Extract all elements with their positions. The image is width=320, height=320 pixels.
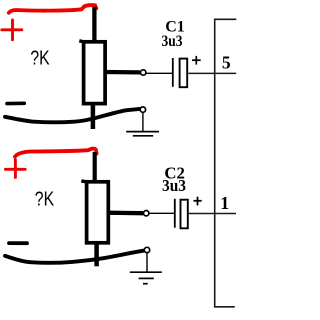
red supply wire (bottom channel): [15, 149, 97, 157]
terminal node: R1 wiper solder tab: [141, 70, 146, 75]
plus terminal label (bottom channel): [5, 160, 25, 178]
wire: ground tab to ground symbol (top): [142, 113, 144, 132]
wire: wiper arm of R2 (thick): [107, 211, 143, 216]
wire: wiper arm of R1 (thick): [104, 70, 140, 75]
wire: bottom stub of R2: [94, 243, 99, 266]
terminal node: R2 wiper solder tab: [144, 211, 149, 216]
ground symbol (bottom channel): [130, 272, 162, 284]
capacitor C2 (polarized: bar plate + box plate): [175, 199, 188, 229]
wire: wiper tab to capacitor C1: [146, 72, 172, 74]
plus terminal label (top channel): [2, 20, 22, 40]
terminal node: ground tab (top channel): [140, 107, 145, 112]
svg-text:5: 5: [222, 53, 231, 73]
minus terminal label (top channel): [7, 102, 24, 106]
svg-text:?K: ?K: [30, 47, 50, 69]
plus polarity mark of C2: [194, 197, 202, 206]
wire: ground tab to ground symbol (bottom): [146, 253, 148, 272]
svg-text:1: 1: [220, 193, 229, 213]
wire: top lead from red wire to potentiometer body: [92, 7, 96, 42]
potentiometer R2 body (bottom): [81, 181, 108, 243]
wire: wiper tab to capacitor C2: [149, 212, 174, 214]
svg-text:?K: ?K: [35, 188, 55, 210]
plus polarity mark of C1: [192, 56, 201, 65]
svg-text:3u3: 3u3: [162, 176, 186, 195]
terminal node: ground tab (bottom channel): [144, 247, 149, 252]
svg-text:3u3: 3u3: [162, 33, 183, 50]
minus terminal label (bottom channel): [9, 241, 27, 245]
wire: C1 to IC pin 5: [188, 72, 236, 74]
wire: top lead from red wire to potentiometer body (bottom): [93, 152, 97, 182]
potentiometer R1 body (top): [79, 41, 105, 104]
wire: negative hand-drawn wire to R2 bottom and ground terminal (bottom channel): [5, 251, 144, 263]
IC U1 outline (left edge with top and bottom corners): [215, 19, 237, 307]
wire: negative hand-drawn wire to R1 bottom and ground terminal (top channel): [5, 109, 140, 122]
ground symbol (top channel): [126, 132, 159, 136]
wire: C2 to IC pin 1: [189, 213, 236, 215]
capacitor C1 (polarized: bar plate + box plate): [173, 58, 187, 87]
red supply wire (top channel): [9, 5, 97, 13]
wire: bottom stub of R1: [91, 104, 96, 130]
